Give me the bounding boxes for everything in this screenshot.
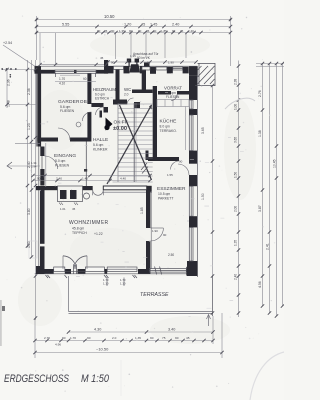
dim line bottom row1 [69,331,214,333]
svg-text:KÜCHE: KÜCHE [160,118,177,125]
extension line left top [36,16,38,60]
wc east wall [142,70,146,90]
dim line second row top [37,26,231,28]
svg-text:1.70: 1.70 [70,336,76,340]
wall top-left segment A [35,70,56,74]
wall top-mid jamb B1 [140,66,142,73]
dim line right near plan [212,85,214,316]
svg-text:1.85: 1.85 [140,207,144,214]
wall top-mid jamb B2 [150,67,156,74]
south wall segment C [78,269,86,274]
svg-text:OK FF: OK FF [114,120,128,126]
stair bottom edge [113,181,153,183]
garderobe bottom wall A [37,138,58,142]
svg-text:5.55: 5.55 [62,23,69,27]
vorrat south wall A [158,91,171,95]
wohnzimmer west wall [40,190,45,244]
leader line top-left [3,45,36,67]
terrace door east [149,269,186,273]
svg-text:2.41: 2.41 [266,243,270,250]
dim line far right 3 [276,64,278,317]
svg-text:1.35: 1.35 [234,240,238,246]
svg-text:5.0 qm: 5.0 qm [55,159,66,163]
svg-text:2.38: 2.38 [234,79,238,85]
terrace south edge A [69,311,214,313]
stair east wall [153,86,157,160]
radiator tick hall [100,111,103,118]
outer face west garderobe [36,66,38,146]
svg-text:3.65: 3.65 [201,127,205,134]
stair mid rail [133,103,135,182]
svg-text:TERRASSE: TERRASSE [140,292,169,298]
vorrat south wall B [177,91,189,95]
svg-text:VORRAT: VORRAT [164,86,182,91]
svg-text:4.56: 4.56 [258,281,262,288]
paper mottling [36,66,197,276]
french door centre marks [73,264,75,274]
svg-text:10.50: 10.50 [104,14,115,19]
window right wall 2 kitchen [189,115,193,151]
hatch stroke 1 [198,66,215,84]
svg-text:FLIESEN: FLIESEN [166,95,180,99]
hatch boundary left [198,63,200,86]
svg-text:PARKETT: PARKETT [158,197,173,201]
divider wall upper [146,190,150,228]
hatch boundary top [198,63,216,65]
french door leaf west [62,256,64,269]
svg-text:FLIESEN: FLIESEN [55,164,70,168]
window south 2 [85,267,104,272]
door kitchen south arc [171,161,180,170]
door garderobe arc [58,128,70,140]
eingang halle partition [85,142,87,187]
eingang dim row A [33,175,150,177]
svg-text:2.40: 2.40 [172,23,179,27]
extension line bottom right A [212,316,214,344]
dim line bottom row3 [35,352,222,354]
bottom row ticks [67,330,70,333]
svg-text:90: 90 [150,336,154,340]
svg-text:90: 90 [179,160,183,164]
column circle [84,193,90,199]
scan dot left [2,306,5,311]
window mullion garderobe [74,70,77,74]
dim line left vertical 2 [31,60,33,258]
dimension end dots [1,19,231,78]
extension line bottom right B [221,313,223,358]
stair left edge [117,103,119,182]
level marker triangle [106,118,113,131]
svg-text:10.5 qm: 10.5 qm [158,192,170,196]
eingang row ticks [31,174,34,177]
french door leaf east [86,256,88,269]
door esszimmer arc [150,228,163,241]
extension stubs to facade [39,33,41,64]
svg-text:45: 45 [186,336,190,340]
door vorrat arc [171,95,177,101]
plan right ticks [211,84,214,87]
svg-text:HEIZRAUM: HEIZRAUM [93,87,116,92]
kitchen sink fixture [130,64,141,72]
svg-text:~10.50: ~10.50 [96,347,109,352]
svg-text:3.80: 3.80 [27,208,31,215]
terrace door tick A [155,267,157,275]
svg-text:2.40: 2.40 [188,29,194,33]
svg-text:4.96: 4.96 [55,343,61,347]
svg-text:1.70: 1.70 [59,77,65,81]
svg-text:1.23: 1.23 [27,123,31,130]
stair arrow head [149,105,152,110]
stair diagonal down [120,105,152,180]
dim line left vertical far [6,70,8,109]
south wall segment A [36,266,45,274]
shutter box faint [29,241,37,258]
window top-mid 2 [142,67,150,70]
hall west wall lower [87,112,91,142]
svg-text:4.10: 4.10 [59,82,65,86]
right wall segment D [189,175,197,186]
terrace east edge [212,276,214,316]
wall top-left corner pier [35,66,42,73]
svg-text:2.40: 2.40 [56,176,62,180]
wc window fixture [144,63,150,67]
window south 1 [54,267,65,272]
wc west wall [116,70,120,100]
svg-text:WC: WC [124,87,131,92]
eingang dim row B [33,180,150,182]
hatch stroke 2 [198,66,209,77]
window right wall 4 [189,227,193,261]
right wall segment E [189,216,197,227]
door hall-garderobe arc [82,112,91,121]
door heizraum arc [96,107,104,115]
svg-text:1.50: 1.50 [234,172,238,178]
svg-text:1.70: 1.70 [124,23,131,27]
wall top-left segment B [96,70,108,74]
eingang inner vertical [45,143,47,187]
level marker circle [104,125,109,130]
hatch stroke 4 [198,66,202,70]
svg-text:1.10: 1.10 [103,282,109,286]
svg-text:2.40: 2.40 [234,274,238,280]
garderobe west wall [37,70,41,147]
terrace tick A [106,278,108,287]
heizraum south wall [91,103,103,107]
local row ticks [38,63,41,66]
svg-text:10.45: 10.45 [273,159,277,168]
south wall corner divider [138,269,150,274]
french door sill [65,270,86,272]
svg-text:4.40: 4.40 [120,176,126,180]
hatch stroke 3 [204,73,215,84]
dim line third row top [37,32,231,34]
approach arrow [7,162,12,169]
chimney stem A [129,62,130,67]
chimney stem B [136,62,137,67]
right wall segment C [189,151,197,164]
svg-text:75: 75 [162,336,166,340]
understair strokes [141,163,148,174]
hall door jamb [134,102,140,108]
wall top-right corner [189,66,198,75]
svg-text:3.65: 3.65 [234,137,238,143]
front wall segment A [36,186,58,190]
wall facade step [104,60,108,74]
kitchen counter [157,100,189,151]
svg-text:1.55: 1.55 [167,173,173,177]
window south 3 [107,267,137,272]
svg-text:90: 90 [163,233,167,237]
svg-text:TERRAKO.: TERRAKO. [160,129,177,133]
svg-text:1.35: 1.35 [135,336,141,340]
svg-text:5.6 qm: 5.6 qm [93,143,104,147]
front wall segment B [83,186,93,190]
svg-text:1.50: 1.50 [201,193,205,200]
heizraum door jamb [104,107,109,113]
svg-text:1.00: 1.00 [234,104,238,110]
approach line upper [15,143,40,145]
svg-text:45.8 qm: 45.8 qm [72,227,84,231]
eingang door sill [41,156,43,169]
eingang west wall lower [40,169,44,186]
hatch boundary bottom [195,85,215,87]
dim line far right 1 [262,64,264,307]
svg-text:±0.00: ±0.00 [113,126,127,132]
dim line far right 4 [282,64,284,307]
divider outer face line [150,192,152,269]
svg-text:1.40: 1.40 [82,176,88,180]
svg-text:KLINKER: KLINKER [93,148,108,152]
door eingang west arc [45,156,58,169]
erased curve right [225,98,255,109]
svg-text:1.48: 1.48 [7,100,11,107]
svg-text:2.36: 2.36 [7,79,11,86]
svg-text:2.36: 2.36 [27,88,31,95]
svg-text:M 1:50: M 1:50 [81,373,110,385]
right wall corner SE [187,261,198,276]
front wall corner block [147,186,152,192]
outer face south [35,273,195,275]
svg-text:4.30: 4.30 [94,328,101,332]
extension line right top [230,16,232,66]
terrace arrow head [207,315,211,320]
svg-text:2.94: 2.94 [31,165,37,169]
window top-right big [173,67,183,70]
svg-text:ERDGESCHOSS: ERDGESCHOSS [4,373,69,385]
wall top-mid jamb A2 [124,66,130,73]
svg-text:45: 45 [100,56,104,60]
fireplace block A [60,190,67,199]
outer face north [35,65,198,67]
svg-text:3.40: 3.40 [168,328,175,332]
svg-text:45: 45 [72,207,76,211]
svg-text:+1.22: +1.22 [94,232,103,236]
svg-text:1.90: 1.90 [152,229,158,233]
svg-text:1.38: 1.38 [258,130,262,137]
faint fold line bottom [120,360,122,396]
kitchen south wall [148,157,179,161]
terrace arrow line [208,315,210,326]
svg-text:8.0 qm: 8.0 qm [160,125,171,129]
svg-text:90: 90 [175,336,179,340]
chimney mark B [135,59,139,63]
door kitchen east arc [178,164,189,175]
stair treads [118,104,153,176]
hall north wall [113,100,127,105]
stair landing block [146,151,149,161]
south wall pier east [186,267,195,276]
wall top-right jamb D [183,67,189,74]
svg-text:TEPPICH: TEPPICH [72,231,87,235]
svg-text:1.01: 1.01 [60,207,66,211]
fireplace outline [58,186,83,202]
svg-text:+2.54: +2.54 [3,41,12,45]
hall west wall upper [87,74,91,105]
left col ticks [5,68,8,71]
svg-text:3.87: 3.87 [258,205,262,212]
window right wall 3 [189,186,193,216]
svg-text:1.10: 1.10 [120,282,126,286]
scan speckle [7,15,276,391]
dim line bottom row2 [35,340,213,342]
wall top-mid jamb A1 [108,66,114,73]
window top-left [55,70,96,73]
dim line left horizontal A [2,69,36,71]
door hall-wohnzimmer arcs [93,190,104,195]
dim line left vertical 1 [27,60,29,247]
south wall segment B [65,269,71,274]
hatch stroke 5 [210,79,215,84]
dim line total width top [37,19,231,21]
dim line far right 2 [269,64,271,314]
svg-text:2.76: 2.76 [258,90,262,97]
tick row far right top B [256,66,284,68]
door esszimmer leaf [150,227,163,229]
svg-text:90: 90 [87,336,91,340]
paving edge line [103,191,152,193]
terrace door tick B [160,267,162,275]
local dim row above wall [40,64,106,66]
fireplace block B [70,190,77,199]
svg-text:45: 45 [141,23,145,27]
scan edge left [0,300,2,346]
dim line left horizontal B [7,104,36,106]
right wall segment B [189,109,197,115]
window top-mid 3 [156,67,167,70]
window right wall 1 [189,100,193,109]
front wall outlined section [103,186,146,190]
svg-text:FLIESEN: FLIESEN [60,109,75,113]
svg-text:90: 90 [37,176,41,180]
french door arc east [74,256,87,269]
svg-text:90: 90 [111,29,115,33]
outer face west wohnzimmer [38,147,40,275]
terrace west edge [68,276,70,312]
stair diagonal up [107,105,152,184]
dim line left vertical 3 [35,60,37,320]
svg-text:ESTRICH: ESTRICH [95,97,110,101]
svg-text:2.50: 2.50 [168,253,174,257]
corner shade bottom right [250,352,284,400]
south wall segment D [104,269,107,274]
extension line bottom left [34,318,36,358]
small fixture circle hall [76,122,81,127]
svg-text:1.90: 1.90 [168,61,174,65]
window top-mid 1 [114,66,124,69]
chimney mark A [127,59,131,63]
door wc arc [127,98,134,105]
svg-text:2.70: 2.70 [44,336,50,340]
svg-text:2.00: 2.00 [234,206,238,212]
niche hash marks [59,203,78,206]
dim line right chain [238,61,240,318]
hatch boundary right [214,63,216,86]
eingang west wall upper [40,147,44,157]
outer face east [196,66,198,277]
right chain ticks [237,64,240,67]
approach line [8,165,40,167]
opening hash marks south [46,275,138,278]
tick row far right top A [256,63,284,65]
terrace tick B [123,278,125,287]
garderobe bottom wall B [70,138,91,142]
svg-text:2.0: 2.0 [112,336,117,340]
wc south wall [132,90,153,94]
wall top-mid segment C [167,67,173,74]
right wall segment A [189,76,197,100]
terrace south edge B [69,313,214,315]
svg-text:2.0: 2.0 [124,93,129,97]
french door arc west [63,256,76,269]
divider wall lower [146,241,150,269]
svg-text:1.35: 1.35 [130,54,136,58]
